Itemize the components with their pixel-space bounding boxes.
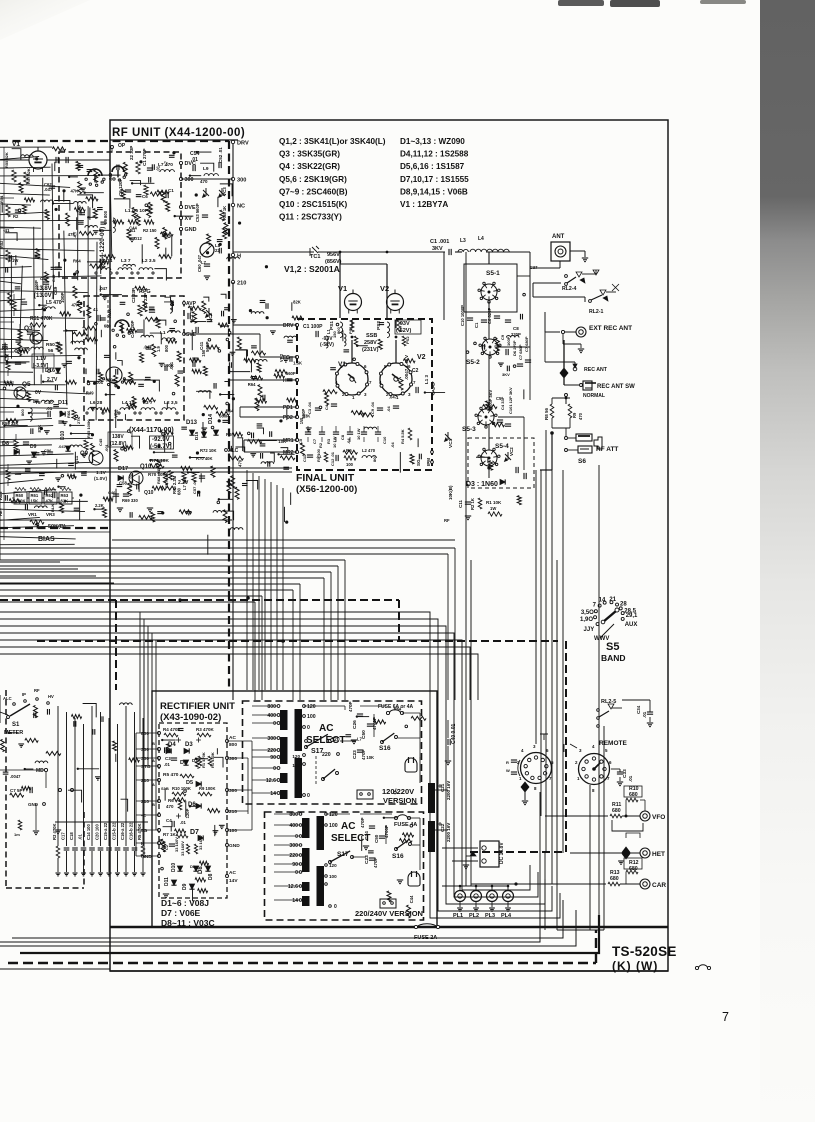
svg-text:R10 100K: R10 100K — [172, 786, 191, 791]
svg-text:REC ANT: REC ANT — [584, 367, 608, 373]
svg-text:PD2: PD2 — [283, 415, 293, 421]
svg-text:138V: 138V — [112, 434, 124, 440]
svg-text:C8: C8 — [340, 434, 345, 440]
svg-text:47K: 47K — [68, 232, 76, 237]
svg-text:ALC: ALC — [3, 696, 12, 701]
svg-text:400: 400 — [267, 713, 276, 719]
svg-text:R9: R9 — [572, 412, 577, 418]
svg-text:VR1: VR1 — [28, 512, 37, 517]
svg-text:R5 470K: R5 470K — [137, 823, 142, 840]
svg-text:C16-b 22: C16-b 22 — [129, 822, 134, 840]
svg-text:GND: GND — [185, 227, 197, 233]
svg-text:470P: 470P — [348, 701, 353, 712]
svg-text:R52: R52 — [0, 240, 4, 248]
svg-text:300: 300 — [185, 177, 194, 183]
svg-text:OP: OP — [118, 143, 126, 149]
svg-text:C44: C44 — [409, 895, 414, 903]
svg-text:VR2: VR2 — [279, 353, 284, 362]
svg-text:.0047: .0047 — [10, 774, 21, 779]
svg-text:C7 5P: C7 5P — [10, 788, 23, 793]
svg-text:C9: C9 — [500, 334, 505, 340]
svg-text:C50: C50 — [361, 730, 367, 739]
svg-text:R5 100: R5 100 — [316, 448, 321, 462]
svg-text:12.6: 12.6 — [266, 778, 276, 784]
svg-text:150: 150 — [201, 349, 206, 357]
svg-text:560P: 560P — [219, 413, 229, 418]
svg-text:ANT: ANT — [552, 234, 565, 240]
svg-text:Q10: Q10 — [144, 490, 154, 496]
svg-text:V1: V1 — [338, 284, 347, 293]
svg-text:AC: AC — [229, 735, 236, 741]
svg-text:-93V: -93V — [398, 321, 410, 327]
svg-text:2.2K: 2.2K — [95, 503, 104, 508]
svg-text:220P: 220P — [511, 332, 521, 337]
svg-text:S16: S16 — [392, 853, 404, 860]
svg-text:R49: R49 — [86, 391, 94, 396]
svg-text:SG: SG — [416, 459, 421, 466]
svg-text:BAND: BAND — [601, 653, 626, 663]
svg-text:R61: R61 — [31, 493, 39, 498]
svg-text:.04: .04 — [386, 406, 391, 412]
svg-text:BIAS: BIAS — [38, 536, 55, 543]
svg-text:D8: D8 — [208, 873, 214, 880]
svg-text:D10: D10 — [171, 863, 177, 872]
svg-text:R8 56: R8 56 — [544, 407, 549, 420]
svg-text:3KV: 3KV — [432, 246, 443, 252]
svg-text:REMOTE: REMOTE — [599, 740, 627, 747]
svg-text:D14: D14 — [208, 413, 214, 424]
svg-text:C2 33P: C2 33P — [131, 288, 136, 303]
svg-text:JJY: JJY — [584, 627, 595, 633]
svg-text:(-52V): (-52V) — [320, 342, 334, 348]
svg-text:.01: .01 — [642, 711, 647, 718]
svg-text:56: 56 — [48, 348, 54, 354]
svg-text:R63: R63 — [61, 493, 69, 498]
svg-text:RF UNIT (X44-1200-00): RF UNIT (X44-1200-00) — [112, 127, 245, 139]
svg-text:300: 300 — [229, 788, 237, 794]
svg-text:10 1W: 10 1W — [332, 436, 337, 448]
svg-text:L7: L7 — [163, 160, 168, 166]
svg-text:PS2: PS2 — [405, 336, 410, 344]
svg-text:DRV: DRV — [237, 141, 249, 147]
svg-text:47K: 47K — [70, 189, 78, 194]
svg-text:D11: D11 — [164, 877, 170, 886]
svg-text:470: 470 — [237, 459, 242, 467]
svg-text:680: 680 — [104, 324, 112, 329]
svg-text:L2 3,5: L2 3,5 — [164, 400, 178, 406]
svg-text:C17: C17 — [61, 832, 66, 840]
svg-text:R3 470K: R3 470K — [196, 727, 215, 732]
svg-text:R4 470K: R4 470K — [163, 727, 182, 732]
svg-text:MD: MD — [36, 768, 44, 774]
svg-text:210: 210 — [237, 281, 246, 287]
svg-text:HEY: HEY — [0, 507, 3, 516]
svg-text:R68 .047: R68 .047 — [156, 467, 161, 484]
svg-text:.04: .04 — [390, 442, 395, 448]
svg-text:D15: D15 — [194, 431, 199, 440]
svg-text:Q3: Q3 — [24, 325, 33, 332]
svg-text:Q4 : 3SK22(GR): Q4 : 3SK22(GR) — [279, 162, 340, 171]
svg-text:D4,11,12 : 1S2588: D4,11,12 : 1S2588 — [400, 150, 469, 159]
svg-text:10K(B): 10K(B) — [448, 485, 453, 500]
svg-text:V2: V2 — [380, 284, 389, 293]
svg-text:C18: C18 — [69, 832, 74, 840]
svg-text:D7,10,17 : 1S1555: D7,10,17 : 1S1555 — [400, 175, 469, 184]
svg-text:V2: V2 — [417, 354, 426, 361]
svg-text:L5 470: L5 470 — [46, 300, 62, 306]
svg-text:220: 220 — [289, 853, 298, 859]
svg-text:400: 400 — [289, 823, 298, 829]
svg-text:HET: HET — [652, 851, 665, 858]
svg-text:R9 100K: R9 100K — [199, 786, 216, 791]
svg-text:B: B — [152, 802, 155, 807]
svg-text:C11: C11 — [458, 499, 463, 508]
svg-text:[13.0V]: [13.0V] — [34, 293, 54, 299]
svg-text:47K: 47K — [46, 499, 54, 504]
svg-text:(231V): (231V) — [362, 347, 379, 353]
svg-text:Q5,6 : 2SK19(GR): Q5,6 : 2SK19(GR) — [279, 175, 347, 184]
svg-text:300: 300 — [267, 736, 276, 742]
svg-text:470P: 470P — [361, 749, 366, 760]
svg-text:R2: R2 — [318, 442, 323, 448]
svg-text:D8~11 : V03C: D8~11 : V03C — [161, 918, 215, 928]
svg-text:PS1: PS1 — [329, 321, 335, 330]
svg-text:D3 : 1N60: D3 : 1N60 — [466, 481, 498, 488]
svg-text:258V: 258V — [364, 340, 377, 346]
svg-text:C23: C23 — [352, 750, 358, 759]
svg-text:R64: R64 — [394, 706, 402, 711]
svg-text:.047: .047 — [108, 172, 113, 181]
svg-text:C4: C4 — [324, 404, 329, 410]
svg-text:PS2: PS2 — [376, 321, 382, 330]
svg-text:C58: C58 — [119, 480, 127, 485]
svg-text:120/220V: 120/220V — [382, 787, 414, 796]
svg-text:PD1: PD1 — [283, 405, 293, 411]
svg-text:V1 : 12BY7A: V1 : 12BY7A — [400, 200, 448, 209]
svg-text:220: 220 — [267, 748, 276, 754]
svg-text:.01: .01 — [191, 157, 198, 163]
svg-text:C8: C8 — [513, 326, 519, 331]
svg-text:L3: L3 — [460, 238, 466, 244]
svg-text:D11: D11 — [58, 400, 68, 406]
svg-text:C12 .01: C12 .01 — [330, 451, 335, 466]
svg-text:L7: L7 — [201, 260, 207, 265]
svg-text:956V: 956V — [327, 252, 340, 258]
svg-text:TC1: TC1 — [310, 254, 320, 260]
svg-text:C6: C6 — [142, 194, 148, 199]
svg-text:C10 1000P: C10 1000P — [460, 305, 465, 326]
svg-text:1,9O: 1,9O — [580, 617, 593, 623]
svg-text:100P: 100P — [506, 336, 511, 346]
svg-text:R64: R64 — [248, 382, 256, 387]
svg-text:RECTIFIER UNIT: RECTIFIER UNIT — [160, 701, 235, 712]
svg-text:10 1W: 10 1W — [356, 428, 361, 440]
svg-text:VC2: VC2 — [509, 447, 514, 456]
svg-text:C53 560P: C53 560P — [195, 203, 200, 222]
svg-text:(1.0V): (1.0V) — [94, 476, 107, 482]
svg-text:-92.9V: -92.9V — [152, 437, 170, 443]
svg-text:0: 0 — [273, 766, 276, 772]
svg-text:560P: 560P — [301, 409, 306, 419]
svg-text:TS-520SE: TS-520SE — [612, 944, 677, 959]
svg-text:1m: 1m — [14, 832, 20, 837]
svg-text:7: 7 — [722, 1010, 729, 1024]
svg-text:1W: 1W — [12, 258, 18, 263]
svg-text:DRV: DRV — [283, 323, 294, 329]
svg-text:T5: T5 — [35, 400, 41, 406]
svg-text:C3 .04: C3 .04 — [307, 401, 312, 414]
svg-text:300: 300 — [229, 756, 237, 762]
svg-text:D3: D3 — [185, 742, 193, 748]
svg-text:.04: .04 — [346, 438, 351, 444]
svg-text:470P: 470P — [373, 857, 378, 868]
svg-text:.01: .01 — [164, 762, 170, 767]
svg-text:C15-b 22: C15-b 22 — [112, 822, 117, 840]
svg-text:AC: AC — [229, 870, 236, 876]
svg-text:210: 210 — [229, 809, 237, 815]
svg-text:33 160V: 33 160V — [180, 841, 185, 856]
svg-text:0: 0 — [307, 793, 310, 799]
svg-text:100: 100 — [229, 828, 237, 834]
svg-text:C26: C26 — [352, 720, 358, 729]
svg-text:14: 14 — [270, 791, 276, 797]
svg-text:R1 470K: R1 470K — [201, 752, 206, 768]
svg-text:150: 150 — [332, 331, 337, 338]
svg-text:D6 270P: D6 270P — [512, 340, 517, 356]
svg-text:GND: GND — [28, 802, 39, 807]
svg-text:R72 10K: R72 10K — [200, 448, 217, 453]
svg-text:(X43-1090-02): (X43-1090-02) — [160, 712, 221, 723]
svg-text:R71 10K: R71 10K — [150, 458, 169, 464]
svg-text:100P: 100P — [34, 280, 39, 290]
svg-text:470: 470 — [166, 804, 174, 809]
svg-text:C1: C1 — [474, 322, 479, 328]
svg-text:D17: D17 — [118, 466, 128, 472]
svg-text:HV: HV — [48, 694, 54, 699]
svg-text:680: 680 — [612, 808, 621, 814]
svg-text:R2 150: R2 150 — [143, 228, 157, 233]
svg-text:2200 16V: 2200 16V — [446, 823, 451, 842]
svg-text:CAR: CAR — [652, 882, 666, 889]
svg-text:D8: D8 — [2, 441, 9, 447]
svg-text:120: 120 — [329, 812, 338, 818]
svg-text:R2 1K: R2 1K — [470, 498, 475, 510]
svg-text:R: R — [506, 760, 509, 765]
svg-text:0: 0 — [295, 834, 298, 840]
svg-text:680: 680 — [106, 378, 114, 383]
svg-text:.01: .01 — [180, 820, 186, 825]
svg-text:C20 100: C20 100 — [95, 823, 100, 840]
svg-text:SSB: SSB — [366, 333, 377, 339]
svg-text:Q7~9 : 2SC460(B): Q7~9 : 2SC460(B) — [279, 187, 348, 196]
svg-text:FINAL UNIT: FINAL UNIT — [296, 472, 355, 484]
svg-text:D7 : V06E: D7 : V06E — [161, 908, 201, 918]
svg-text:1.1V: 1.1V — [36, 356, 47, 362]
svg-text:REC ANT SW: REC ANT SW — [597, 384, 635, 390]
svg-text:14V: 14V — [229, 878, 238, 884]
svg-text:210: 210 — [141, 799, 149, 805]
svg-text:C14 100: C14 100 — [86, 823, 91, 840]
svg-text:120: 120 — [329, 863, 337, 868]
svg-text:D1~3,13 : WZ090: D1~3,13 : WZ090 — [400, 137, 465, 146]
svg-text:100: 100 — [307, 714, 316, 720]
svg-text:800: 800 — [267, 704, 276, 710]
svg-text:R65 100K: R65 100K — [86, 420, 91, 438]
svg-text:220: 220 — [322, 752, 331, 758]
svg-text:C15-a 22: C15-a 22 — [103, 822, 108, 840]
svg-text:.01: .01 — [156, 165, 161, 171]
svg-text:W: W — [506, 768, 510, 773]
svg-text:R58 1K: R58 1K — [222, 206, 227, 220]
svg-text:R70 40K: R70 40K — [196, 456, 213, 461]
svg-text:V1,2 : S2001A: V1,2 : S2001A — [284, 264, 340, 274]
svg-text:VR2: VR2 — [113, 409, 118, 418]
svg-text:C10: C10 — [382, 436, 387, 444]
svg-text:C7 680P: C7 680P — [524, 336, 529, 352]
svg-text:FUSE 4A: FUSE 4A — [394, 822, 417, 828]
svg-text:C24: C24 — [364, 831, 370, 840]
svg-text:R6: R6 — [226, 432, 232, 437]
svg-text:VERSION: VERSION — [383, 796, 417, 805]
svg-text:C50: C50 — [374, 834, 379, 843]
svg-text:S5: S5 — [606, 641, 619, 653]
svg-text:C34: C34 — [636, 705, 641, 714]
svg-text:L2 470: L2 470 — [362, 448, 376, 453]
svg-text:(856V): (856V) — [325, 259, 342, 265]
svg-text:AC: AC — [319, 723, 333, 734]
svg-text:1.1V: 1.1V — [96, 470, 107, 476]
svg-text:R7 1K: R7 1K — [163, 832, 177, 837]
svg-text:C1 100P: C1 100P — [303, 324, 323, 330]
svg-text:S6: S6 — [578, 458, 586, 465]
svg-text:D8: D8 — [198, 866, 204, 874]
svg-text:100: 100 — [292, 763, 300, 768]
svg-text:L9: L9 — [203, 166, 209, 172]
svg-text:S5-3: S5-3 — [462, 426, 476, 433]
svg-text:680: 680 — [610, 876, 619, 882]
svg-text:560P: 560P — [286, 371, 296, 376]
svg-text:C4: C4 — [166, 818, 172, 823]
svg-text:0: 0 — [334, 904, 337, 910]
svg-text:C7: C7 — [312, 438, 317, 444]
svg-text:RL2-4: RL2-4 — [562, 286, 577, 292]
svg-text:D13: D13 — [186, 420, 198, 426]
svg-text:R69 330: R69 330 — [122, 498, 139, 503]
svg-text:D8,9,14,15 : V06B: D8,9,14,15 : V06B — [400, 187, 468, 196]
svg-text:L3 7: L3 7 — [121, 258, 131, 264]
svg-text:R5 470: R5 470 — [163, 772, 179, 778]
svg-text:.01: .01 — [628, 775, 633, 782]
svg-text:C3: C3 — [165, 756, 171, 761]
svg-text:C22: C22 — [440, 823, 445, 832]
svg-text:.01: .01 — [78, 834, 83, 840]
svg-text:S5-4: S5-4 — [495, 443, 509, 450]
svg-text:1W: 1W — [490, 506, 496, 511]
svg-text:D1~6 : V08J: D1~6 : V08J — [161, 898, 209, 908]
svg-text:L1: L1 — [326, 328, 331, 334]
svg-text:C37: C37 — [530, 265, 538, 270]
svg-text:800: 800 — [20, 409, 25, 416]
svg-text:C9 .04: C9 .04 — [370, 401, 375, 414]
svg-text:RF: RF — [34, 688, 40, 693]
svg-text:C44: C44 — [129, 226, 137, 231]
svg-text:100: 100 — [329, 874, 337, 879]
svg-text:D5,6,16 : 1S1587: D5,6,16 : 1S1587 — [400, 162, 465, 171]
svg-text:R64: R64 — [73, 259, 81, 264]
svg-text:RL2-1: RL2-1 — [589, 309, 604, 315]
svg-text:R3: R3 — [326, 438, 331, 444]
svg-text:S16: S16 — [379, 745, 391, 752]
svg-text:300: 300 — [237, 178, 246, 184]
svg-text:R4 5.5K: R4 5.5K — [400, 429, 405, 444]
svg-text:120: 120 — [292, 754, 300, 759]
svg-text:VFO: VFO — [652, 814, 665, 821]
svg-text:STB: STB — [141, 764, 151, 770]
svg-text:100: 100 — [346, 462, 354, 467]
svg-text:XV: XV — [185, 216, 193, 222]
svg-text:R60: R60 — [16, 493, 24, 498]
svg-text:C45: C45 — [98, 438, 103, 446]
svg-text:D12: D12 — [134, 236, 142, 241]
svg-text:AUX: AUX — [625, 622, 638, 628]
svg-text:C1 270P: C1 270P — [142, 148, 147, 166]
svg-text:C101 12P 3KV: C101 12P 3KV — [508, 387, 513, 414]
svg-text:3KV: 3KV — [502, 372, 510, 377]
svg-text:.047: .047 — [143, 344, 152, 349]
svg-text:100: 100 — [329, 823, 338, 829]
svg-text:Q11 : 2SC733(Y): Q11 : 2SC733(Y) — [279, 213, 342, 222]
svg-text:33 160V: 33 160V — [198, 835, 203, 850]
svg-text:L4: L4 — [478, 236, 484, 242]
svg-text:IP: IP — [22, 692, 26, 697]
svg-text:0: 0 — [295, 870, 298, 876]
svg-text:470P: 470P — [360, 817, 365, 828]
svg-text:90: 90 — [292, 862, 298, 868]
svg-text:22 33P: 22 33P — [129, 146, 134, 160]
svg-text:C41: C41 — [199, 341, 204, 350]
svg-text:680: 680 — [176, 487, 181, 495]
svg-text:MR2: MR2 — [283, 450, 294, 456]
svg-text:C16-a 22: C16-a 22 — [120, 822, 125, 840]
svg-text:R2: R2 — [13, 214, 19, 219]
svg-text:L1 C5 10P: L1 C5 10P — [125, 208, 149, 214]
svg-text:R66: R66 — [66, 410, 71, 418]
svg-text:L7: L7 — [357, 737, 363, 742]
svg-text:470: 470 — [578, 412, 583, 420]
svg-text:0: 0 — [307, 725, 310, 731]
svg-text:D9: D9 — [182, 883, 188, 890]
svg-text:EXT REC ANT: EXT REC ANT — [589, 325, 632, 332]
svg-text:R54: R54 — [0, 195, 4, 203]
svg-text:800: 800 — [372, 455, 377, 462]
svg-text:GND: GND — [229, 843, 240, 849]
svg-text:SVE: SVE — [186, 332, 197, 338]
svg-text:220/240V VERSION: 220/240V VERSION — [355, 909, 423, 918]
svg-text:3,5O: 3,5O — [581, 610, 594, 616]
svg-text:14: 14 — [292, 898, 298, 904]
svg-text:L1 3: L1 3 — [424, 374, 429, 384]
svg-text:29,1: 29,1 — [626, 613, 638, 619]
svg-text:Q3 : 3SK35(GR): Q3 : 3SK35(GR) — [279, 150, 340, 159]
svg-text:14: 14 — [599, 598, 606, 604]
svg-text:C7 680P: C7 680P — [518, 344, 523, 360]
svg-text:C21: C21 — [440, 783, 445, 792]
svg-text:C52 .01: C52 .01 — [218, 147, 223, 163]
svg-text:800: 800 — [229, 742, 237, 748]
svg-text:NC: NC — [237, 204, 245, 210]
svg-text:Q10 : 2SC1515(K): Q10 : 2SC1515(K) — [279, 200, 348, 209]
svg-text:S1: S1 — [12, 722, 20, 728]
